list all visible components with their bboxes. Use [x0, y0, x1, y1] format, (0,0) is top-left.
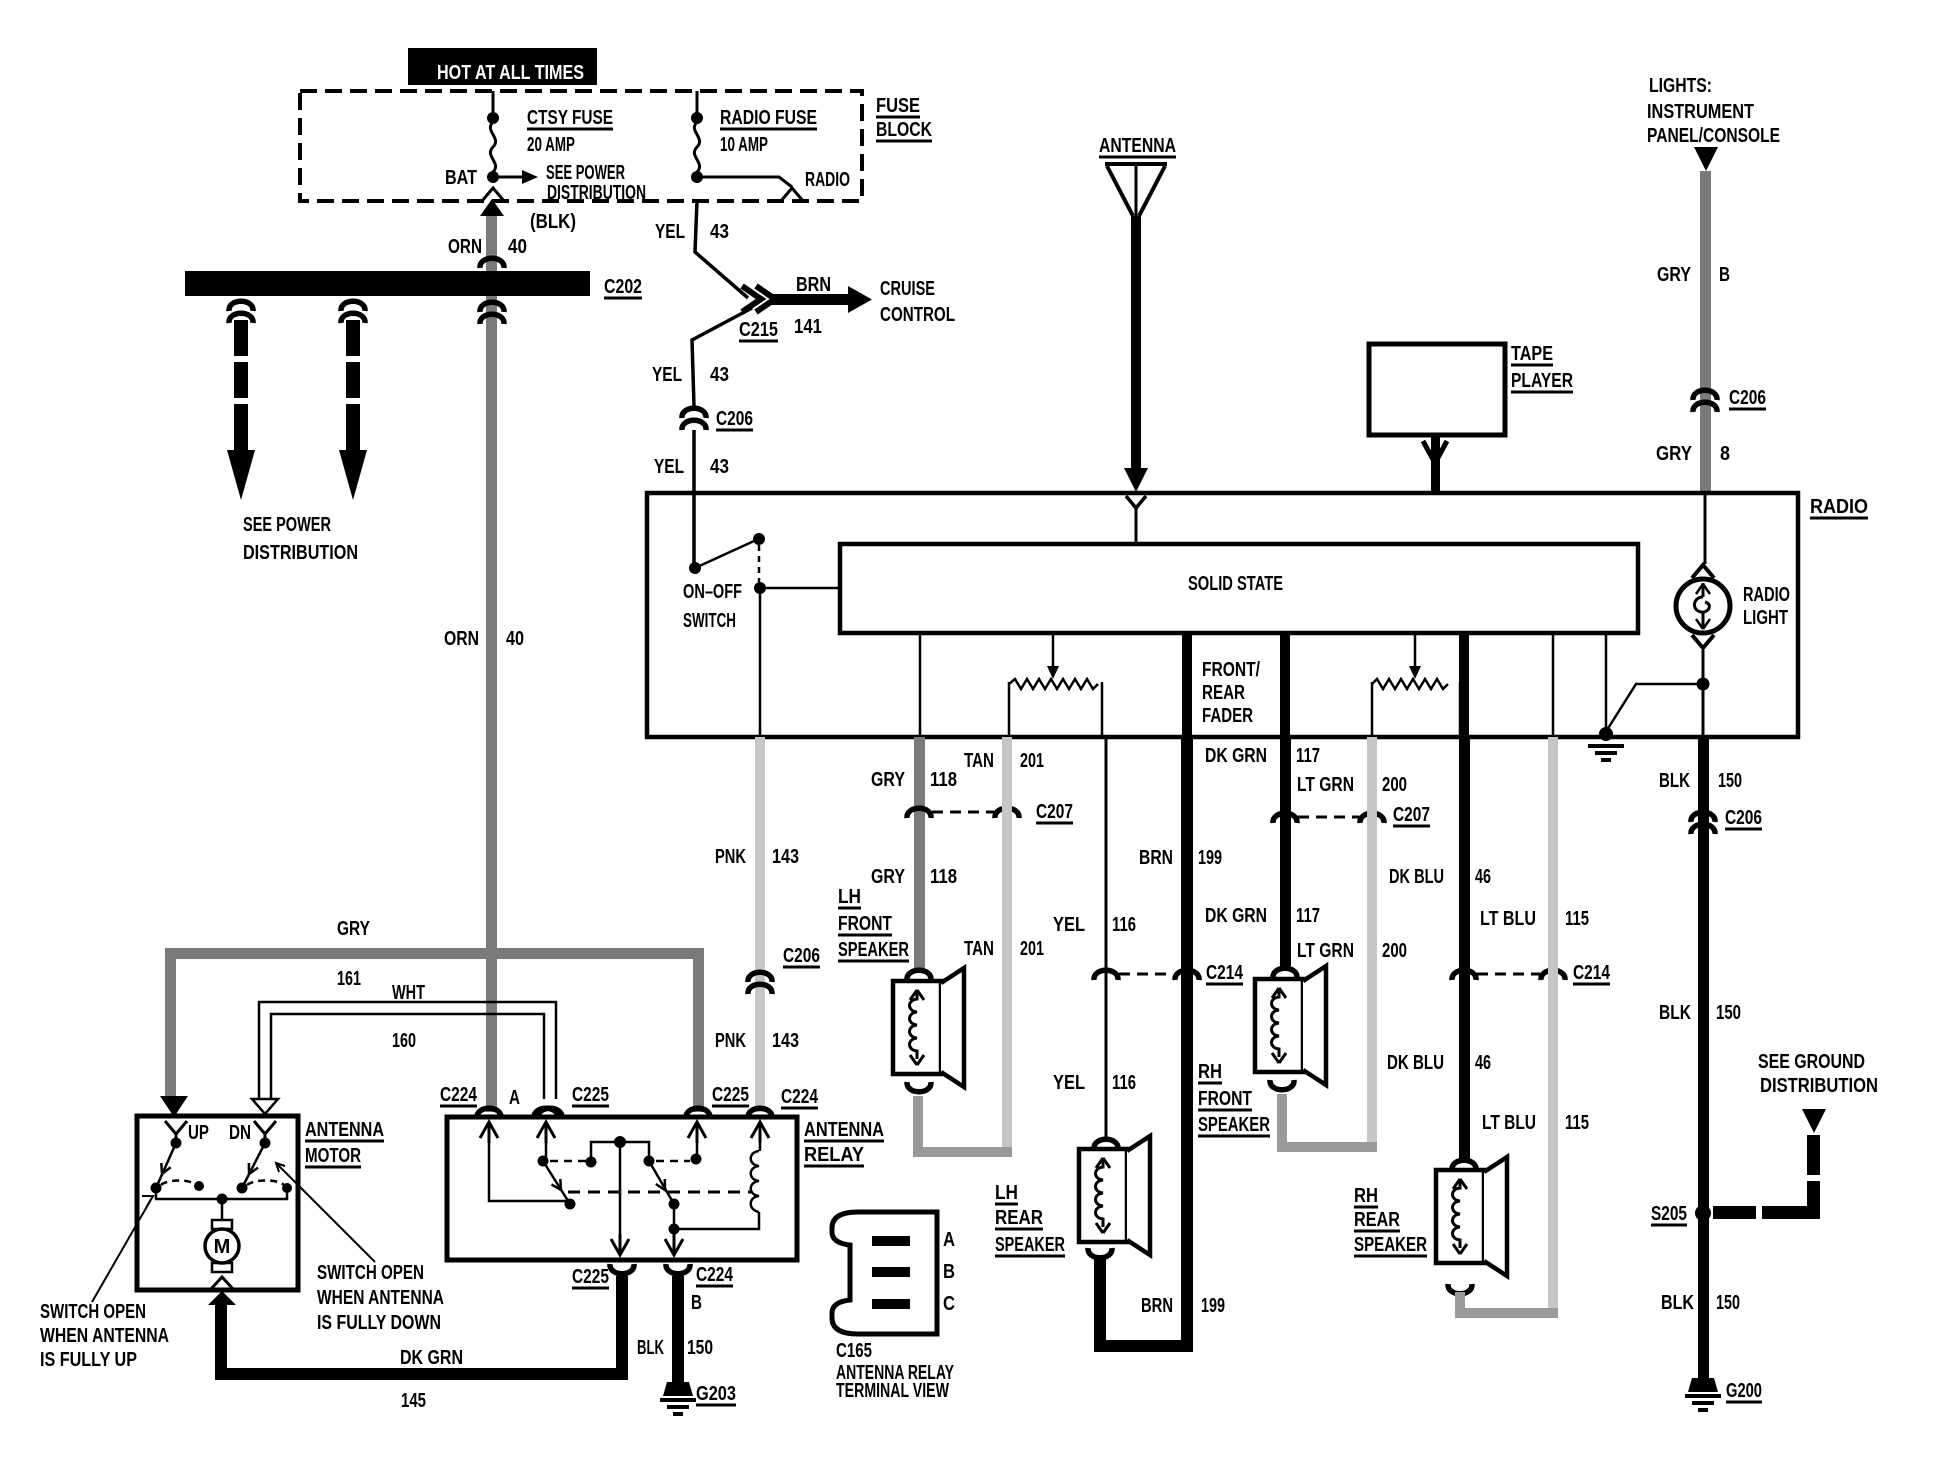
svg-text:RADIO: RADIO	[1810, 496, 1868, 518]
svg-text:BRN: BRN	[1139, 847, 1173, 869]
svg-text:118: 118	[930, 769, 957, 791]
svg-text:G203: G203	[696, 1383, 736, 1405]
svg-text:150: 150	[1716, 1292, 1740, 1314]
svg-text:UP: UP	[188, 1122, 209, 1144]
svg-text:REAR: REAR	[1202, 682, 1245, 704]
svg-text:A: A	[509, 1087, 520, 1109]
svg-text:YEL: YEL	[1053, 1072, 1085, 1094]
svg-text:10 AMP: 10 AMP	[720, 134, 768, 156]
svg-text:WHEN ANTENNA: WHEN ANTENNA	[40, 1325, 169, 1347]
svg-text:TAN: TAN	[964, 938, 994, 960]
svg-text:SEE GROUND: SEE GROUND	[1758, 1051, 1865, 1073]
svg-text:117: 117	[1296, 745, 1320, 767]
svg-text:C225: C225	[572, 1084, 609, 1106]
svg-text:PANEL/CONSOLE: PANEL/CONSOLE	[1647, 125, 1780, 147]
svg-text:CONTROL: CONTROL	[880, 304, 955, 326]
svg-text:115: 115	[1565, 1112, 1589, 1134]
svg-text:DK BLU: DK BLU	[1387, 1052, 1444, 1074]
svg-text:FRONT: FRONT	[838, 913, 892, 935]
svg-text:GRY: GRY	[1657, 264, 1692, 286]
svg-text:LT GRN: LT GRN	[1297, 940, 1354, 962]
svg-text:43: 43	[710, 364, 729, 386]
svg-text:GRY: GRY	[871, 866, 906, 888]
svg-text:DISTRIBUTION: DISTRIBUTION	[243, 542, 358, 564]
svg-text:MOTOR: MOTOR	[305, 1145, 361, 1167]
svg-text:145: 145	[401, 1390, 426, 1412]
svg-text:C214: C214	[1206, 962, 1244, 984]
svg-text:LT BLU: LT BLU	[1480, 908, 1536, 930]
svg-text:200: 200	[1382, 774, 1407, 796]
svg-text:TERMINAL VIEW: TERMINAL VIEW	[836, 1380, 949, 1402]
svg-text:43: 43	[710, 221, 729, 243]
svg-text:C224: C224	[696, 1264, 734, 1286]
svg-text:LIGHT: LIGHT	[1743, 607, 1788, 629]
svg-text:ORN: ORN	[448, 236, 482, 258]
svg-text:161: 161	[337, 968, 361, 990]
svg-text:IS FULLY UP: IS FULLY UP	[40, 1349, 137, 1371]
svg-text:8: 8	[1720, 443, 1730, 465]
svg-text:118: 118	[930, 866, 957, 888]
svg-text:RADIO: RADIO	[1743, 584, 1790, 606]
svg-text:SWITCH: SWITCH	[683, 610, 736, 632]
svg-text:C165: C165	[836, 1340, 872, 1362]
svg-text:FRONT/: FRONT/	[1202, 659, 1260, 681]
svg-text:B: B	[691, 1292, 702, 1314]
svg-text:B: B	[943, 1261, 955, 1283]
svg-text:G200: G200	[1726, 1380, 1762, 1402]
svg-text:SPEAKER: SPEAKER	[1354, 1234, 1427, 1256]
svg-text:TAPE: TAPE	[1511, 343, 1553, 365]
svg-text:YEL: YEL	[1053, 914, 1085, 936]
svg-text:LT BLU: LT BLU	[1482, 1112, 1536, 1134]
svg-text:C224: C224	[440, 1084, 478, 1106]
svg-text:SEE POWER: SEE POWER	[243, 514, 331, 536]
svg-text:DISTRIBUTION: DISTRIBUTION	[547, 182, 646, 204]
svg-text:RH: RH	[1198, 1061, 1222, 1083]
svg-text:DISTRIBUTION: DISTRIBUTION	[1760, 1075, 1878, 1097]
svg-text:PLAYER: PLAYER	[1511, 370, 1573, 392]
svg-text:141: 141	[794, 316, 822, 338]
svg-text:117: 117	[1296, 905, 1320, 927]
svg-text:BLK: BLK	[1659, 1002, 1691, 1024]
svg-text:C206: C206	[1725, 807, 1762, 829]
svg-text:SPEAKER: SPEAKER	[995, 1234, 1065, 1256]
svg-text:RH: RH	[1354, 1185, 1378, 1207]
svg-text:YEL: YEL	[655, 221, 685, 243]
svg-text:C206: C206	[716, 408, 753, 430]
svg-text:ANTENNA: ANTENNA	[1099, 135, 1176, 157]
svg-text:REAR: REAR	[1354, 1209, 1400, 1231]
svg-text:C206: C206	[1729, 387, 1766, 409]
svg-text:WHEN ANTENNA: WHEN ANTENNA	[317, 1287, 444, 1309]
svg-text:C215: C215	[739, 319, 778, 341]
svg-text:REAR: REAR	[995, 1207, 1043, 1229]
svg-text:C214: C214	[1573, 962, 1611, 984]
svg-text:116: 116	[1112, 914, 1136, 936]
svg-text:IS FULLY DOWN: IS FULLY DOWN	[317, 1312, 441, 1334]
svg-text:CTSY FUSE: CTSY FUSE	[527, 107, 613, 129]
svg-text:GRY: GRY	[871, 769, 906, 791]
svg-text:BRN: BRN	[796, 274, 831, 296]
svg-text:200: 200	[1382, 940, 1407, 962]
svg-text:ORN: ORN	[444, 628, 479, 650]
svg-text:DK GRN: DK GRN	[1205, 905, 1267, 927]
svg-text:C202: C202	[604, 276, 642, 298]
svg-text:B: B	[1719, 264, 1730, 286]
svg-text:RADIO: RADIO	[805, 169, 850, 191]
svg-text:116: 116	[1112, 1072, 1136, 1094]
svg-text:BLK: BLK	[1659, 770, 1690, 792]
svg-text:BRN: BRN	[1141, 1295, 1173, 1317]
svg-text:FADER: FADER	[1202, 705, 1253, 727]
svg-text:PNK: PNK	[715, 846, 746, 868]
svg-text:ON–OFF: ON–OFF	[683, 581, 742, 603]
svg-text:20 AMP: 20 AMP	[527, 134, 575, 156]
svg-text:SPEAKER: SPEAKER	[1198, 1114, 1270, 1136]
svg-text:199: 199	[1201, 1295, 1225, 1317]
svg-text:115: 115	[1565, 908, 1589, 930]
svg-text:S205: S205	[1651, 1203, 1687, 1225]
svg-text:BLK: BLK	[1661, 1292, 1694, 1314]
svg-text:C207: C207	[1036, 801, 1073, 823]
svg-text:199: 199	[1198, 847, 1222, 869]
svg-text:LT GRN: LT GRN	[1297, 774, 1354, 796]
svg-text:LIGHTS:: LIGHTS:	[1649, 75, 1712, 97]
svg-text:DN: DN	[229, 1122, 251, 1144]
svg-text:ANTENNA: ANTENNA	[804, 1119, 884, 1141]
svg-text:GRY: GRY	[1656, 443, 1693, 465]
svg-text:150: 150	[1716, 1002, 1741, 1024]
svg-text:40: 40	[506, 628, 524, 650]
svg-text:SPEAKER: SPEAKER	[838, 939, 909, 961]
svg-text:PNK: PNK	[715, 1030, 746, 1052]
svg-text:C225: C225	[712, 1084, 749, 1106]
svg-text:SWITCH OPEN: SWITCH OPEN	[40, 1301, 146, 1323]
svg-text:(BLK): (BLK)	[530, 211, 576, 233]
svg-text:46: 46	[1475, 866, 1491, 888]
svg-text:RADIO FUSE: RADIO FUSE	[720, 107, 817, 129]
svg-text:SEE POWER: SEE POWER	[546, 162, 625, 184]
svg-text:A: A	[943, 1229, 955, 1251]
svg-text:C225: C225	[572, 1266, 609, 1288]
svg-text:DK GRN: DK GRN	[1205, 745, 1267, 767]
svg-text:BLK: BLK	[637, 1337, 664, 1359]
svg-text:43: 43	[710, 456, 729, 478]
svg-text:SOLID STATE: SOLID STATE	[1188, 573, 1283, 595]
svg-text:143: 143	[772, 846, 799, 868]
svg-text:DK BLU: DK BLU	[1389, 866, 1444, 888]
svg-text:C206: C206	[783, 945, 820, 967]
svg-text:RELAY: RELAY	[804, 1144, 865, 1166]
svg-text:C224: C224	[781, 1086, 819, 1108]
svg-text:C207: C207	[1393, 804, 1430, 826]
svg-text:SWITCH OPEN: SWITCH OPEN	[317, 1262, 424, 1284]
svg-text:150: 150	[1718, 770, 1742, 792]
svg-text:DK GRN: DK GRN	[400, 1347, 463, 1369]
svg-text:CRUISE: CRUISE	[880, 278, 935, 300]
svg-text:ANTENNA: ANTENNA	[305, 1119, 384, 1141]
svg-text:HOT AT ALL TIMES: HOT AT ALL TIMES	[437, 62, 584, 84]
svg-text:FRONT: FRONT	[1198, 1088, 1252, 1110]
svg-text:201: 201	[1020, 938, 1044, 960]
svg-text:TAN: TAN	[964, 750, 994, 772]
svg-text:INSTRUMENT: INSTRUMENT	[1647, 101, 1754, 123]
svg-text:GRY: GRY	[337, 918, 371, 940]
svg-text:FUSE: FUSE	[876, 95, 920, 117]
svg-text:BLOCK: BLOCK	[876, 119, 932, 141]
svg-text:M: M	[214, 1236, 231, 1258]
svg-text:143: 143	[772, 1030, 799, 1052]
svg-text:LH: LH	[995, 1182, 1018, 1204]
svg-text:BAT: BAT	[445, 167, 477, 189]
svg-text:YEL: YEL	[652, 364, 682, 386]
svg-text:201: 201	[1020, 750, 1044, 772]
svg-text:YEL: YEL	[654, 456, 684, 478]
svg-text:WHT: WHT	[392, 982, 425, 1004]
svg-text:LH: LH	[838, 886, 861, 908]
svg-text:C: C	[943, 1293, 955, 1315]
svg-text:40: 40	[508, 236, 527, 258]
svg-text:46: 46	[1475, 1052, 1491, 1074]
svg-text:150: 150	[687, 1337, 713, 1359]
svg-text:160: 160	[392, 1030, 416, 1052]
